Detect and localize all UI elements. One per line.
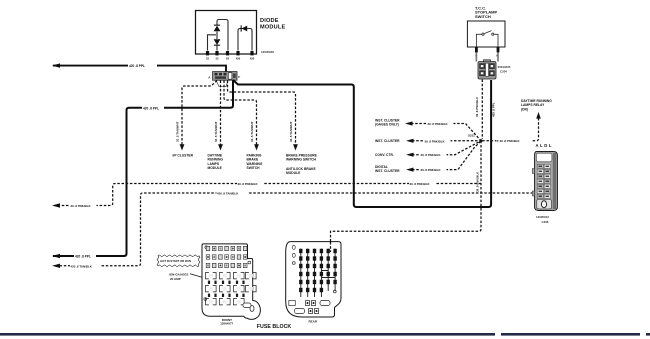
wire 39 .8 PNK/BLK to inst cluster (gages only) bbox=[411, 124, 481, 141]
wire 420 .8 PPL (C100 pin A down-left to bottom arrow) bbox=[53, 80, 233, 256]
wire 33 .5 TAN/WHT to I/P cluster bbox=[182, 81, 217, 147]
svg-text:420: 420 bbox=[250, 57, 255, 61]
wire 33 .5 TAN/WHT to brake pressure warning switch bbox=[228, 81, 296, 147]
svg-text:93: 93 bbox=[226, 57, 229, 61]
svg-text:CONV. CTR.: CONV. CTR. bbox=[375, 153, 394, 157]
svg-text:420 .8 PPL: 420 .8 PPL bbox=[75, 255, 91, 259]
connector shell below C100 bbox=[216, 81, 228, 87]
ALDL side tabs bbox=[532, 169, 534, 174]
svg-text:420 .8 PPL: 420 .8 PPL bbox=[129, 64, 145, 68]
connector C204 bbox=[478, 62, 496, 80]
svg-text:DIODE: DIODE bbox=[260, 18, 279, 24]
svg-text:MODULE: MODULE bbox=[286, 171, 301, 175]
svg-text:I/P CLUSTER: I/P CLUSTER bbox=[173, 154, 194, 158]
svg-text:39 .8 PNK/BLK: 39 .8 PNK/BLK bbox=[428, 122, 449, 126]
svg-text:420 .8 PPL: 420 .8 PPL bbox=[143, 106, 159, 110]
svg-text:33 .5 TAN/WHT: 33 .5 TAN/WHT bbox=[176, 121, 180, 142]
svg-text:ALDL: ALDL bbox=[536, 143, 554, 148]
svg-text:INST. CLUSTER: INST. CLUSTER bbox=[375, 169, 400, 173]
svg-text:SWITCH: SWITCH bbox=[247, 166, 261, 170]
splice S211 bbox=[480, 139, 483, 142]
svg-text:C204: C204 bbox=[500, 70, 507, 74]
svg-text:INST. CLUSTER: INST. CLUSTER bbox=[375, 139, 400, 143]
svg-text:420 .8 PPL: 420 .8 PPL bbox=[492, 102, 496, 117]
wire 39 .8 PNK/BLK to inst cluster bbox=[412, 140, 481, 142]
svg-text:S211: S211 bbox=[468, 134, 475, 138]
svg-text:33 .5 TAN/WHT: 33 .5 TAN/WHT bbox=[289, 121, 293, 142]
fuse block REAR bbox=[286, 242, 341, 317]
diode module pins bbox=[206, 51, 254, 55]
svg-text:WARNING SWITCH: WARNING SWITCH bbox=[286, 158, 316, 162]
wire 420 .8 TAN/BLK (ALDL left to bottom-left arrow) bbox=[54, 193, 533, 266]
svg-text:420 .8 TAN/BLK: 420 .8 TAN/BLK bbox=[71, 264, 93, 268]
svg-text:12045948: 12045948 bbox=[261, 50, 274, 54]
svg-text:(GAGES ONLY): (GAGES ONLY) bbox=[375, 123, 399, 127]
svg-text:MODULE: MODULE bbox=[208, 166, 223, 170]
switch contacts bbox=[476, 31, 498, 47]
svg-text:20044235: 20044235 bbox=[498, 65, 511, 69]
front block fuses bbox=[206, 273, 257, 305]
footer rule bbox=[0, 333, 495, 336]
svg-text:FUSE BLOCK: FUSE BLOCK bbox=[257, 324, 292, 330]
ALDL pin cells bbox=[537, 164, 550, 198]
wire 39 .8 PNK/BLK to rear fuse block bbox=[331, 229, 482, 252]
svg-text:C308: C308 bbox=[542, 220, 549, 224]
svg-text:39 .8 PNK/BLK: 39 .8 PNK/BLK bbox=[421, 153, 442, 157]
pointer line to gauges fuse bbox=[190, 274, 217, 282]
svg-text:REAR: REAR bbox=[309, 319, 318, 323]
wire 33 .5 TAN/WHT to DRL module bbox=[220, 81, 222, 147]
diode D1 (up) and D2 (down) internal wiring bbox=[208, 20, 253, 51]
svg-text:39 .8 PNK/BLK: 39 .8 PNK/BLK bbox=[410, 182, 431, 186]
wire 39 .8 PNK/BLK up-arrow to DRL relay bbox=[481, 118, 539, 141]
switch pins B and A bbox=[475, 47, 478, 53]
svg-text:F 39 .8 PNK/BLK: F 39 .8 PNK/BLK bbox=[497, 139, 521, 143]
diode D3 (right, points left) bbox=[242, 26, 248, 32]
svg-text:33: 33 bbox=[206, 57, 209, 61]
svg-text:SWITCH: SWITCH bbox=[475, 14, 491, 19]
rear block lower fuses bbox=[295, 301, 331, 314]
svg-text:33: 33 bbox=[216, 57, 219, 61]
wire 39 .8 PNK/BLK (C204 pin B down to splice S211) bbox=[481, 80, 483, 140]
wire 39 .8 PNK/BLK (S211 down, then left to arrow) bbox=[54, 141, 481, 229]
svg-text:MODULE: MODULE bbox=[260, 25, 286, 31]
wire 39 .8 PNK/BLK to conv ctr bbox=[412, 141, 481, 155]
svg-text:33 .5 TAN/WHT: 33 .5 TAN/WHT bbox=[214, 121, 218, 142]
svg-text:12064577: 12064577 bbox=[220, 321, 233, 325]
connector C100 (A-F) bbox=[213, 72, 237, 81]
svg-text:420: 420 bbox=[236, 57, 241, 61]
svg-text:39 .8 PNK/BLK: 39 .8 PNK/BLK bbox=[71, 204, 92, 208]
svg-text:39 .8 PNK/BLK: 39 .8 PNK/BLK bbox=[238, 182, 259, 186]
svg-text:420 .8 TAN/BLK: 420 .8 TAN/BLK bbox=[217, 192, 239, 196]
svg-text:(DR): (DR) bbox=[521, 107, 528, 111]
svg-text:39 .8 PNK/BLK: 39 .8 PNK/BLK bbox=[476, 171, 480, 192]
wire 420 .8 PPL loop (C100 pin F to stoplamp connector) bbox=[233, 80, 491, 207]
wire 33 .5 TAN/WHT to parking brake warning switch bbox=[224, 81, 257, 147]
wire 420 .8 PPL to arrow left (top) bbox=[53, 66, 226, 72]
svg-text:20 AMP: 20 AMP bbox=[170, 277, 181, 281]
note box HOT IN START OR RUN bbox=[157, 255, 200, 267]
svg-text:33 .5 TAN/WHT: 33 .5 TAN/WHT bbox=[250, 121, 254, 142]
rear block bus rails bbox=[301, 249, 335, 298]
wire 39 .8 PNK/BLK to digital inst cluster bbox=[412, 141, 481, 170]
front block small terminals grid bbox=[206, 246, 247, 267]
svg-text:39 .8 PNK/BLK: 39 .8 PNK/BLK bbox=[475, 96, 479, 117]
svg-text:12020043: 12020043 bbox=[536, 215, 549, 219]
svg-text:39 .8 PNK/BLK: 39 .8 PNK/BLK bbox=[421, 168, 442, 172]
svg-text:F: F bbox=[238, 75, 240, 79]
svg-text:39 .8 PNK/BLK: 39 .8 PNK/BLK bbox=[425, 139, 446, 143]
stubs from switch pins to C204 bbox=[476, 53, 498, 62]
fuse block FRONT 12064577 bbox=[202, 244, 260, 320]
diode module box bbox=[196, 11, 257, 55]
svg-text:HOT IN START OR RUN: HOT IN START OR RUN bbox=[160, 259, 191, 263]
svg-text:A: A bbox=[208, 76, 211, 80]
wire 39 .8 PNK/BLK inside rear block bbox=[330, 242, 332, 252]
